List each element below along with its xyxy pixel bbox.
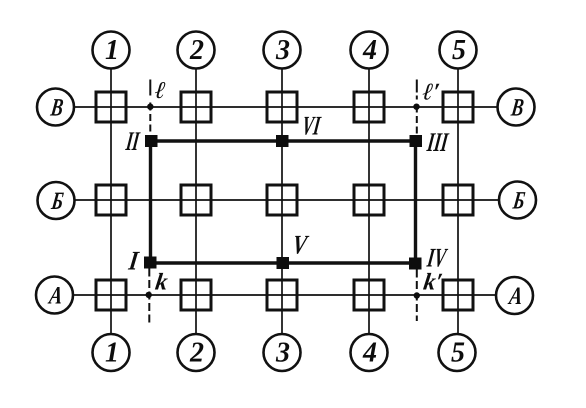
svg-text:4: 4 <box>362 338 377 369</box>
svg-text:5: 5 <box>451 338 465 369</box>
svg-text:1: 1 <box>105 338 119 369</box>
svg-text:ℓ′: ℓ′ <box>421 80 441 106</box>
svg-text:1: 1 <box>105 35 119 66</box>
svg-text:k′: k′ <box>422 270 444 296</box>
svg-text:5: 5 <box>452 35 466 66</box>
svg-text:2: 2 <box>189 338 204 369</box>
svg-text:2: 2 <box>189 35 204 66</box>
svg-text:4: 4 <box>362 35 377 66</box>
svg-text:3: 3 <box>275 338 290 369</box>
svg-text:3: 3 <box>275 35 290 66</box>
